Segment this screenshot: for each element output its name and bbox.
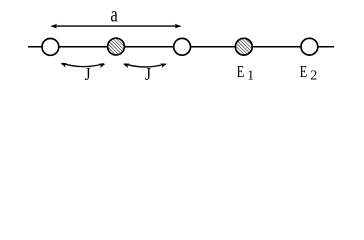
svg-text:E: E — [300, 63, 308, 81]
site 5: open circle — [301, 38, 318, 55]
svg-text:J: J — [85, 64, 91, 84]
svg-text:1: 1 — [247, 68, 254, 83]
lattice-constant dimension arrow (a) — [50, 24, 181, 29]
chain wire (horizontal lattice line) — [28, 46, 334, 48]
svg-text:J: J — [145, 64, 151, 84]
site 1: open circle — [42, 39, 59, 56]
svg-text:2: 2 — [310, 69, 317, 84]
svg-text:a: a — [110, 3, 118, 27]
site 4: hatched circle — [235, 38, 252, 55]
coupling arc J (sites 1-2) — [62, 63, 104, 66]
site 3: open circle — [174, 38, 191, 55]
label E2 — [300, 63, 318, 83]
svg-text:E: E — [237, 63, 245, 81]
site 2: hatched circle — [108, 38, 125, 55]
label E1 — [237, 63, 254, 82]
coupling arc J (sites 2-3) — [125, 64, 166, 67]
